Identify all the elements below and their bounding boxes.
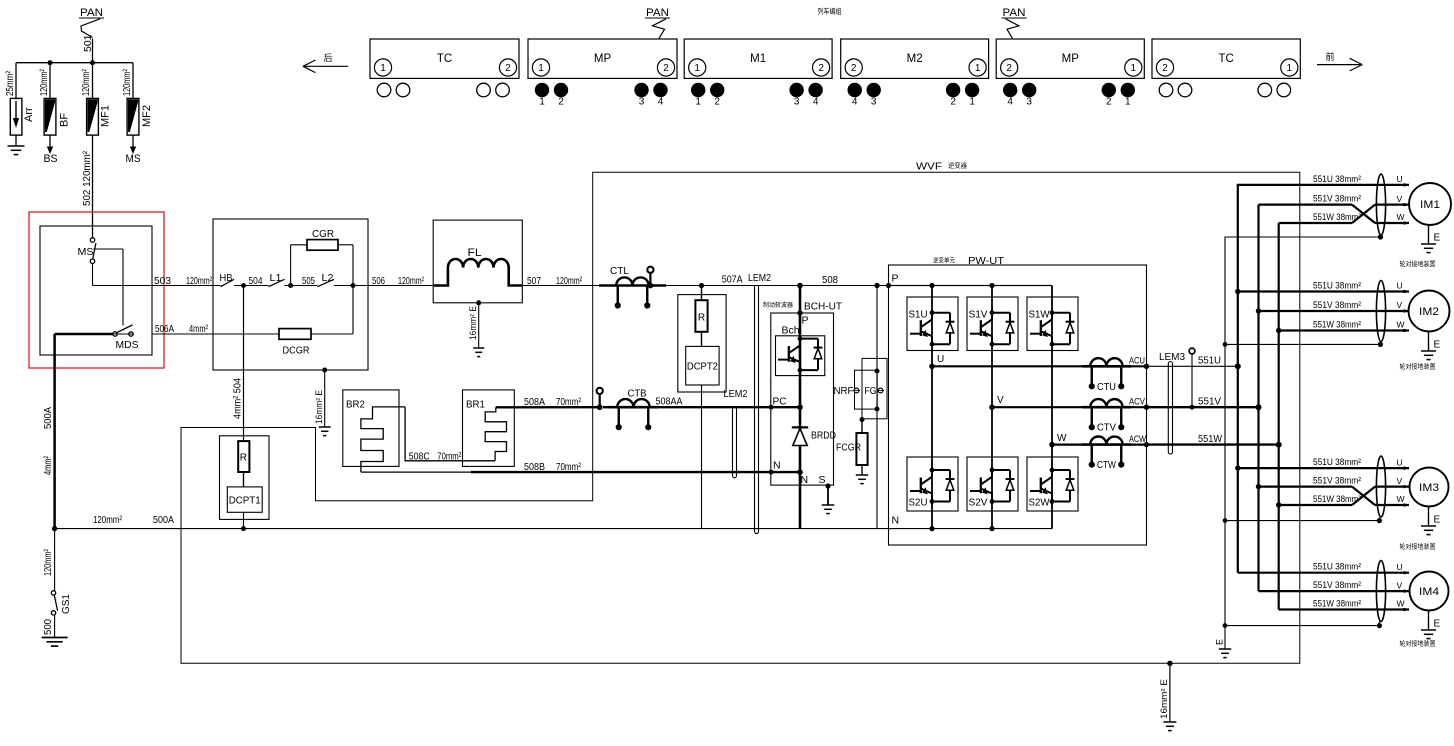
svg-text:TC: TC bbox=[437, 53, 452, 65]
svg-text:IM1: IM1 bbox=[1420, 199, 1440, 211]
svg-text:508A: 508A bbox=[524, 396, 545, 408]
wire 551W bbox=[1147, 433, 1279, 445]
svg-text:551W 38mm²: 551W 38mm² bbox=[1313, 494, 1361, 505]
IM2 feeder wires bbox=[1238, 292, 1409, 331]
wire 508AA to PC bbox=[656, 396, 801, 408]
svg-text:R: R bbox=[698, 313, 705, 324]
svg-text:551W 38mm²: 551W 38mm² bbox=[1313, 320, 1361, 331]
wire DCPT1 to 500A line bbox=[241, 512, 246, 531]
wire 508A 70mm2 bbox=[496, 396, 600, 408]
svg-text:U: U bbox=[1397, 281, 1403, 291]
svg-text:E: E bbox=[1434, 619, 1441, 630]
svg-text:V: V bbox=[1397, 300, 1403, 310]
cable labels IM4 bbox=[1313, 562, 1361, 610]
IM4 ring earth wire bbox=[1225, 622, 1382, 629]
junction dot bus-MF1 bbox=[90, 60, 95, 65]
svg-text:S1U: S1U bbox=[909, 309, 928, 321]
disconnector MS bbox=[78, 238, 96, 264]
svg-text:IM3: IM3 bbox=[1419, 482, 1439, 494]
svg-text:120mm²: 120mm² bbox=[186, 275, 212, 287]
resistor R upper bbox=[695, 286, 707, 332]
svg-text:W: W bbox=[1397, 494, 1405, 504]
IGBT Bch bbox=[776, 326, 825, 376]
phase leg W wire bbox=[1051, 286, 1053, 529]
svg-text:W: W bbox=[1057, 433, 1067, 444]
HB box earth 16mm2 E bbox=[314, 368, 331, 436]
svg-text:551W 38mm²: 551W 38mm² bbox=[1313, 599, 1361, 610]
svg-text:HB: HB bbox=[220, 272, 233, 284]
enclosure earth 16mm2 E bbox=[1159, 661, 1173, 722]
earthing switch GS1 branch bbox=[43, 529, 72, 638]
svg-text:2: 2 bbox=[818, 63, 824, 74]
arrester Arr with 25mm2 lead bbox=[5, 63, 35, 146]
ground of FCGR bbox=[856, 474, 869, 476]
wire 505 segment bbox=[285, 275, 318, 287]
IM3 feeder wires with V-W crossover bbox=[1238, 468, 1409, 505]
fuse MF1 with 120mm2 lead bbox=[81, 63, 112, 135]
junction node 507A-R bbox=[699, 283, 704, 288]
IM1 ring earth dot bbox=[1378, 234, 1383, 239]
IM1 V-W crossover bbox=[1259, 205, 1410, 223]
pantograph on MP 2 bbox=[1002, 7, 1027, 38]
svg-text:MF1: MF1 bbox=[100, 105, 112, 127]
svg-text:PAN: PAN bbox=[646, 7, 669, 19]
svg-text:列车编组: 列车编组 bbox=[818, 7, 842, 16]
svg-text:551U 38mm²: 551U 38mm² bbox=[1313, 562, 1361, 573]
svg-text:BF: BF bbox=[59, 113, 71, 127]
svg-text:1: 1 bbox=[539, 97, 545, 108]
node V bbox=[989, 395, 1004, 410]
phase W output wire bbox=[1052, 444, 1147, 446]
svg-text:2: 2 bbox=[505, 63, 511, 74]
svg-text:551V 38mm²: 551V 38mm² bbox=[1313, 194, 1361, 205]
svg-text:2: 2 bbox=[558, 97, 564, 108]
phase leg U wire bbox=[931, 286, 933, 529]
svg-text:506A: 506A bbox=[155, 323, 174, 335]
contactor L1 bbox=[269, 272, 285, 287]
svg-text:508AA: 508AA bbox=[656, 396, 683, 408]
svg-text:507A: 507A bbox=[722, 274, 743, 286]
svg-text:E: E bbox=[1434, 233, 1441, 244]
current sensor LEM3 loop bbox=[1159, 352, 1185, 454]
svg-text:1: 1 bbox=[1287, 63, 1293, 74]
voltage sensor DCPT1 assembly box bbox=[220, 436, 270, 520]
svg-text:551U 38mm²: 551U 38mm² bbox=[1313, 281, 1361, 292]
sensor DCPT2 bbox=[686, 332, 719, 385]
svg-text:MP: MP bbox=[594, 53, 612, 65]
svg-text:120mm²: 120mm² bbox=[122, 69, 133, 96]
direction arrow left bbox=[303, 53, 348, 73]
svg-text:轮对接地装置: 轮对接地装置 bbox=[1400, 542, 1437, 551]
svg-text:25mm²: 25mm² bbox=[5, 70, 16, 96]
svg-text:V: V bbox=[1397, 194, 1403, 204]
brake resistor BR1 box bbox=[463, 390, 515, 467]
junction MDS-500A bbox=[52, 526, 57, 531]
svg-text:U: U bbox=[1397, 457, 1403, 467]
svg-text:508C: 508C bbox=[409, 451, 430, 463]
IM4 feeder wires bbox=[1238, 573, 1409, 610]
contactor L2 bbox=[318, 272, 335, 287]
wire 500A 120mm2 long line bbox=[55, 514, 1052, 529]
filter reactor FL box bbox=[433, 220, 522, 303]
svg-text:FL: FL bbox=[468, 247, 482, 259]
svg-text:4mm²: 4mm² bbox=[43, 456, 54, 475]
svg-text:PW-UT: PW-UT bbox=[968, 255, 1005, 267]
voltage sensor assembly box bbox=[678, 295, 726, 392]
svg-text:U: U bbox=[1397, 562, 1403, 572]
brake resistor BR1 element bbox=[485, 407, 506, 461]
junction dot bus-BF bbox=[48, 60, 53, 65]
current sensor LEM2 lower loop bbox=[724, 388, 748, 478]
svg-text:S2W: S2W bbox=[1029, 497, 1050, 509]
HB CGR DCGR enclosure box bbox=[213, 219, 368, 370]
svg-text:E: E bbox=[1215, 639, 1225, 645]
IM2 earth bbox=[1421, 332, 1441, 360]
WVF converter enclosure bbox=[181, 161, 1300, 664]
IGBT S1V bbox=[967, 297, 1018, 351]
chopper bottom labels N S bbox=[801, 474, 826, 486]
node PC bbox=[769, 396, 803, 411]
svg-text:4: 4 bbox=[813, 97, 819, 108]
brake resistor BR2 box bbox=[343, 390, 399, 467]
motor IM4 bbox=[1397, 562, 1449, 611]
svg-text:MS: MS bbox=[78, 246, 94, 258]
pantograph on MP 1 bbox=[645, 7, 670, 38]
svg-text:M1: M1 bbox=[750, 53, 766, 65]
svg-text:1: 1 bbox=[1131, 63, 1137, 74]
phase U output wire bbox=[932, 365, 1147, 367]
svg-text:70mm²: 70mm² bbox=[556, 396, 581, 408]
direction arrow right bbox=[1317, 51, 1362, 71]
svg-text:2: 2 bbox=[950, 97, 956, 108]
earth bus ground bbox=[1219, 648, 1232, 650]
svg-text:CGR: CGR bbox=[312, 228, 334, 240]
junction chopper top edge bbox=[797, 310, 802, 315]
cable labels IM1 bbox=[1313, 174, 1361, 223]
cable labels IM3 bbox=[1313, 457, 1361, 505]
wire 508C 70mm2 bbox=[405, 407, 495, 463]
ground bottom right bbox=[1163, 721, 1176, 723]
current transformer CTV bbox=[1082, 399, 1131, 434]
junction node 504 bbox=[241, 283, 246, 288]
svg-text:V: V bbox=[997, 395, 1004, 406]
svg-text:CTW: CTW bbox=[1097, 459, 1116, 471]
IM4 earth bbox=[1421, 611, 1441, 639]
phase bus W vertical bbox=[1276, 223, 1282, 610]
svg-text:551U 38mm²: 551U 38mm² bbox=[1313, 174, 1361, 185]
P bus bbox=[886, 273, 1052, 289]
svg-text:E: E bbox=[1434, 340, 1441, 351]
svg-text:Bch: Bch bbox=[782, 326, 800, 337]
wire 551V bbox=[1147, 396, 1259, 408]
svg-text:4: 4 bbox=[658, 97, 664, 108]
node U bbox=[929, 354, 944, 369]
svg-text:120mm²: 120mm² bbox=[398, 275, 424, 287]
contactor HB bbox=[220, 272, 235, 287]
svg-text:502 120mm²: 502 120mm² bbox=[82, 150, 93, 206]
svg-text:S: S bbox=[819, 474, 826, 486]
svg-text:551U 38mm²: 551U 38mm² bbox=[1313, 457, 1361, 468]
S terminal earth bbox=[822, 483, 835, 513]
fuse BF with 120mm2 lead bbox=[39, 63, 71, 135]
ground of arrester bbox=[8, 146, 25, 155]
wire 502 120mm2 bbox=[82, 135, 93, 240]
wire to 506 bbox=[334, 275, 433, 287]
svg-text:U: U bbox=[1397, 174, 1403, 184]
cable ring IM1 bbox=[1376, 174, 1385, 235]
svg-text:DCGR: DCGR bbox=[283, 345, 310, 357]
svg-text:S1W: S1W bbox=[1029, 309, 1050, 321]
svg-text:ACW: ACW bbox=[1129, 434, 1146, 444]
svg-text:1: 1 bbox=[695, 97, 701, 108]
svg-text:508: 508 bbox=[822, 274, 838, 286]
svg-text:P: P bbox=[802, 315, 809, 327]
motor IM1 bbox=[1397, 174, 1452, 225]
svg-text:MDS: MDS bbox=[116, 339, 139, 351]
phase bus U vertical bbox=[1235, 185, 1409, 573]
svg-text:551W 38mm²: 551W 38mm² bbox=[1313, 212, 1361, 223]
svg-text:LEM3: LEM3 bbox=[1159, 352, 1185, 363]
CTL terminal circle bbox=[647, 267, 653, 289]
cable ring IM2 bbox=[1376, 281, 1385, 342]
disconnector MDS bbox=[113, 325, 139, 351]
svg-text:PC: PC bbox=[773, 396, 787, 408]
car M1 bbox=[684, 39, 832, 108]
red highlight box bbox=[29, 212, 164, 368]
svg-text:S2V: S2V bbox=[969, 497, 988, 509]
wire DCPT2 down to N line bbox=[701, 385, 703, 529]
svg-text:N: N bbox=[801, 474, 809, 486]
current sensor LEM2 upper loop bbox=[748, 272, 771, 534]
svg-text:V: V bbox=[1397, 476, 1403, 486]
svg-text:MF2: MF2 bbox=[141, 105, 153, 127]
508A terminal circle bbox=[597, 388, 603, 410]
wire 504 down to R bbox=[233, 286, 244, 442]
svg-text:505: 505 bbox=[302, 275, 315, 287]
current transformer CTB bbox=[603, 388, 658, 431]
svg-text:1: 1 bbox=[969, 97, 975, 108]
svg-text:551V 38mm²: 551V 38mm² bbox=[1313, 580, 1361, 591]
svg-text:IM2: IM2 bbox=[1419, 306, 1439, 318]
svg-text:120mm²: 120mm² bbox=[39, 69, 50, 96]
svg-text:逆变器: 逆变器 bbox=[948, 161, 968, 170]
svg-text:2: 2 bbox=[663, 63, 669, 74]
svg-text:70mm²: 70mm² bbox=[437, 451, 461, 463]
svg-text:P: P bbox=[892, 273, 899, 285]
IGBT S2V bbox=[967, 457, 1018, 511]
svg-text:503: 503 bbox=[154, 275, 171, 287]
wire 507A to 508 bbox=[666, 274, 889, 286]
current transformer CTU bbox=[1082, 358, 1131, 393]
brake chopper BCH-UT box bbox=[763, 301, 843, 486]
svg-text:70mm²: 70mm² bbox=[556, 461, 581, 473]
fuse MF2 with 120mm2 lead bbox=[122, 63, 153, 135]
IM1 earth bbox=[1421, 225, 1441, 253]
svg-text:PAN: PAN bbox=[80, 7, 103, 19]
svg-text:NRF: NRF bbox=[834, 386, 854, 397]
svg-text:E: E bbox=[1434, 515, 1441, 526]
IM3 earth bbox=[1421, 507, 1441, 535]
current transformer CTW bbox=[1082, 437, 1131, 472]
arrow to BS bbox=[44, 135, 58, 165]
svg-text:504: 504 bbox=[249, 275, 263, 287]
junction dots at PW-UT right edge bbox=[1144, 364, 1149, 369]
svg-text:3: 3 bbox=[639, 97, 645, 108]
svg-text:FG: FG bbox=[865, 386, 877, 397]
node N of chopper bbox=[769, 460, 803, 475]
wire 507 120mm2 bbox=[522, 275, 599, 287]
wire 501 pantograph to bus bbox=[82, 34, 94, 62]
svg-text:500: 500 bbox=[43, 619, 54, 635]
svg-text:LEM2: LEM2 bbox=[724, 388, 748, 400]
svg-text:DCPT2: DCPT2 bbox=[687, 362, 718, 373]
IGBT S2U bbox=[907, 457, 958, 511]
svg-text:U: U bbox=[937, 354, 944, 365]
chopper main vertical wire bbox=[799, 286, 802, 529]
svg-text:2: 2 bbox=[1006, 63, 1012, 74]
svg-text:Arr: Arr bbox=[23, 107, 35, 122]
motor IM3 bbox=[1397, 457, 1449, 506]
svg-text:501: 501 bbox=[82, 34, 94, 52]
svg-text:WVF: WVF bbox=[916, 161, 942, 173]
svg-text:120mm²: 120mm² bbox=[93, 514, 122, 526]
svg-text:CTB: CTB bbox=[628, 388, 647, 400]
svg-text:2: 2 bbox=[1162, 63, 1168, 74]
svg-text:L1: L1 bbox=[270, 272, 282, 284]
car M2 bbox=[841, 39, 989, 108]
svg-text:1: 1 bbox=[380, 63, 386, 74]
phase bus V vertical bbox=[1256, 205, 1262, 591]
svg-text:507: 507 bbox=[527, 275, 541, 287]
car MP 1 bbox=[528, 39, 677, 108]
svg-text:轮对接地装置: 轮对接地装置 bbox=[1400, 362, 1437, 371]
current transformer CTL bbox=[599, 265, 666, 309]
FL box earth 16mm2 E bbox=[468, 300, 484, 356]
wire 508 to NRF branch bbox=[874, 283, 879, 288]
svg-text:MP: MP bbox=[1062, 53, 1080, 65]
resistor R lower bbox=[238, 441, 249, 472]
svg-text:N: N bbox=[892, 515, 900, 527]
svg-text:2: 2 bbox=[851, 63, 857, 74]
motor earth bus bbox=[1215, 237, 1381, 649]
svg-text:LEM2: LEM2 bbox=[748, 272, 771, 284]
brake resistor BR2 element bbox=[361, 407, 405, 472]
svg-text:BS: BS bbox=[44, 153, 58, 165]
IGBT S1W bbox=[1027, 297, 1078, 351]
svg-text:551V 38mm²: 551V 38mm² bbox=[1313, 476, 1361, 487]
svg-text:TC: TC bbox=[1218, 53, 1233, 65]
ground of GS1 bbox=[42, 637, 68, 639]
wire 508B 70mm2 bbox=[361, 461, 800, 473]
svg-text:后: 后 bbox=[323, 53, 332, 63]
svg-text:120mm²: 120mm² bbox=[81, 69, 92, 96]
junction node 508-chopper bbox=[797, 283, 803, 289]
resistor CGR branch bbox=[291, 228, 353, 286]
svg-text:4: 4 bbox=[852, 97, 858, 108]
svg-text:N: N bbox=[773, 460, 781, 472]
svg-text:16mm² E: 16mm² E bbox=[468, 306, 478, 340]
IM2 ring earth wire bbox=[1225, 342, 1383, 348]
wire 504 segment bbox=[234, 275, 269, 287]
svg-text:500A: 500A bbox=[43, 407, 54, 429]
inductor FL coil bbox=[433, 247, 522, 286]
wire MS to 503 bbox=[92, 263, 94, 285]
svg-text:16mm² E: 16mm² E bbox=[1159, 679, 1169, 719]
svg-text:S2U: S2U bbox=[909, 497, 928, 509]
svg-text:轮对接地装置: 轮对接地装置 bbox=[1400, 259, 1437, 268]
junction node 505 bbox=[288, 283, 293, 288]
cable labels IM2 bbox=[1313, 281, 1361, 331]
bus 501 horizontal bbox=[16, 62, 133, 64]
svg-text:551U: 551U bbox=[1198, 355, 1221, 367]
cable ring IM3 bbox=[1376, 456, 1385, 517]
motor IM2 bbox=[1397, 281, 1450, 332]
svg-text:3: 3 bbox=[1026, 97, 1032, 108]
svg-text:2: 2 bbox=[714, 97, 720, 108]
wire 551U bbox=[1147, 355, 1238, 367]
sensor DCPT1 bbox=[227, 472, 262, 512]
svg-text:500A: 500A bbox=[153, 514, 174, 526]
svg-text:CTL: CTL bbox=[610, 265, 629, 277]
svg-text:1: 1 bbox=[694, 63, 700, 74]
svg-text:GS1: GS1 bbox=[60, 594, 72, 614]
svg-text:W: W bbox=[1397, 320, 1405, 330]
LEM3 terminal circle bbox=[1189, 348, 1195, 410]
node W bbox=[1049, 433, 1067, 447]
wire MS to MDS link bbox=[94, 249, 124, 326]
svg-text:ACU: ACU bbox=[1129, 356, 1145, 366]
MS MDS enclosure box bbox=[40, 226, 152, 355]
svg-text:120mm²: 120mm² bbox=[43, 549, 54, 576]
phase leg V wire bbox=[991, 286, 993, 529]
svg-text:BR1: BR1 bbox=[466, 399, 485, 411]
svg-text:PAN: PAN bbox=[1003, 7, 1026, 19]
svg-text:551V: 551V bbox=[1198, 396, 1221, 408]
svg-text:1: 1 bbox=[538, 63, 544, 74]
svg-text:16mm² E: 16mm² E bbox=[314, 390, 324, 424]
svg-text:120mm²: 120mm² bbox=[556, 275, 582, 287]
car TC 1 bbox=[370, 39, 519, 97]
wire 506A 4mm2 bbox=[113, 323, 213, 335]
wire MDS left to 500A down bbox=[55, 334, 113, 529]
svg-text:W: W bbox=[1397, 599, 1405, 609]
svg-text:508B: 508B bbox=[524, 461, 545, 473]
wire 503 120mm2 bbox=[93, 275, 221, 287]
diode BRDD bbox=[792, 427, 837, 445]
svg-text:R: R bbox=[240, 453, 247, 464]
resistor FCGR bbox=[836, 420, 868, 476]
svg-text:BR2: BR2 bbox=[346, 399, 365, 411]
svg-text:CTU: CTU bbox=[1097, 381, 1116, 393]
svg-text:BCH-UT: BCH-UT bbox=[804, 301, 843, 313]
svg-text:551W: 551W bbox=[1198, 433, 1222, 445]
car TC 2 bbox=[1152, 39, 1300, 97]
svg-text:551V 38mm²: 551V 38mm² bbox=[1313, 300, 1361, 311]
svg-text:逆变单元: 逆变单元 bbox=[933, 257, 955, 265]
svg-text:4mm² 504: 4mm² 504 bbox=[233, 378, 244, 419]
N bus label bbox=[892, 515, 995, 532]
overvoltage device NRF FG boxes bbox=[834, 358, 888, 418]
svg-text:轮对接地装置: 轮对接地装置 bbox=[1400, 639, 1437, 648]
svg-text:FCGR: FCGR bbox=[836, 443, 861, 454]
svg-text:MS: MS bbox=[126, 153, 141, 165]
svg-text:V: V bbox=[1397, 580, 1403, 590]
svg-text:3: 3 bbox=[871, 97, 877, 108]
svg-text:1: 1 bbox=[975, 63, 981, 74]
svg-text:L2: L2 bbox=[322, 272, 334, 284]
svg-text:DCPT1: DCPT1 bbox=[229, 496, 261, 507]
phase V output wire bbox=[992, 406, 1147, 408]
